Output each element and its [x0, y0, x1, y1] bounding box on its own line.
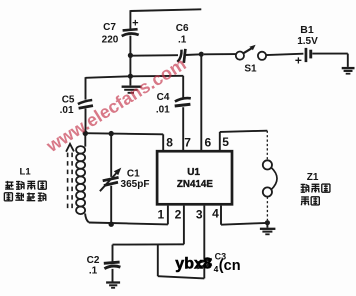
svg-text:ZN414E: ZN414E	[177, 179, 213, 190]
svg-text:+: +	[132, 17, 138, 29]
svg-text:Z1: Z1	[307, 172, 319, 183]
svg-text:8: 8	[166, 136, 173, 150]
svg-text:ybx8: ybx8	[175, 256, 212, 273]
svg-text:L1: L1	[20, 166, 32, 177]
svg-text:365pF: 365pF	[121, 179, 150, 190]
svg-text:C7: C7	[103, 22, 116, 33]
svg-text:1: 1	[158, 208, 165, 222]
svg-text:220: 220	[102, 35, 119, 46]
svg-text:C5: C5	[62, 94, 75, 105]
svg-text:C4: C4	[157, 92, 170, 103]
svg-text:(cn: (cn	[219, 258, 241, 274]
svg-text:6: 6	[205, 136, 212, 150]
svg-text:2: 2	[175, 208, 182, 222]
svg-text:4: 4	[212, 207, 219, 221]
svg-text:1.5V: 1.5V	[297, 36, 318, 47]
svg-text:U1: U1	[187, 167, 200, 178]
svg-text:5: 5	[222, 135, 229, 149]
svg-text:C6: C6	[176, 23, 189, 34]
svg-text:C1: C1	[127, 168, 140, 179]
svg-text:S1: S1	[244, 64, 257, 75]
svg-text:.1: .1	[178, 35, 187, 46]
svg-text:+: +	[295, 53, 302, 67]
svg-text:B1: B1	[300, 24, 314, 36]
svg-text:C2: C2	[87, 255, 100, 266]
svg-text:7: 7	[184, 136, 191, 150]
svg-text:.01: .01	[60, 105, 74, 116]
svg-text:.1: .1	[89, 265, 98, 276]
svg-text:3: 3	[196, 208, 203, 222]
svg-text:.01: .01	[156, 105, 170, 116]
